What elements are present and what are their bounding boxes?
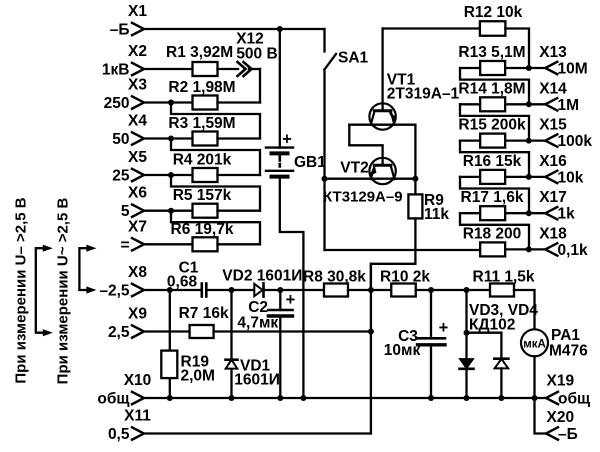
svg-text:2,0M: 2,0M: [181, 368, 215, 385]
node X18: [526, 246, 532, 252]
wire VT1 collector-emitter line: [349, 124, 415, 126]
diode VD1 1601И: [226, 360, 238, 369]
wire R5 right: [218, 210, 261, 212]
wire X2 to R1: [144, 68, 193, 70]
node PA1 / X19 / X20: [532, 395, 538, 401]
wire R15 left: [460, 139, 480, 141]
node X14: [526, 101, 532, 107]
svg-text:–Б: –Б: [558, 426, 578, 443]
svg-text:500 В: 500 В: [236, 46, 277, 63]
wire R11 to PA1: [514, 290, 535, 329]
battery GB1 plate short 1: [272, 151, 288, 155]
svg-text:0,5: 0,5: [108, 426, 130, 443]
wire X8 to C1: [144, 289, 200, 291]
node C2 bottom: [277, 395, 283, 401]
svg-text:SA1: SA1: [338, 50, 369, 67]
svg-text:X2: X2: [128, 43, 147, 60]
resistor R3 1,59M: [193, 132, 218, 146]
node X3 tap: [168, 100, 174, 106]
wire top bus to SA1: [323, 29, 325, 52]
svg-text:X3: X3: [128, 77, 147, 94]
wire VD2 to R8: [264, 289, 325, 291]
resistor R6 19,7k: [193, 237, 218, 251]
node VD1 bottom: [229, 395, 235, 401]
battery GB1 plate short 2: [272, 175, 288, 179]
svg-text:R17 1,6k: R17 1,6k: [461, 189, 524, 206]
wire GB1 plus to top bus: [279, 29, 281, 148]
svg-text:1M: 1M: [558, 97, 580, 114]
capacitor C1 0,68: [201, 284, 204, 297]
resistor R5 157k: [193, 204, 218, 218]
wire X5 to R4: [144, 174, 193, 176]
diode VD3 КД102: [460, 359, 474, 369]
node SA1 / VT2 emitter: [322, 176, 328, 182]
resistor R4 201k: [193, 168, 218, 182]
wire VD1 vertical: [230, 290, 232, 398]
wire R13 left: [460, 67, 480, 69]
node X5 tap: [168, 172, 174, 178]
node VT1 emitter / VT2 collector / R9: [412, 176, 418, 182]
svg-text:X4: X4: [128, 113, 147, 130]
wire C1 to VD2: [208, 289, 254, 291]
resistor R9 11k: [408, 194, 422, 218]
wire C3 bottom lead: [430, 345, 432, 398]
node VD4 bottom: [498, 395, 504, 401]
transistor VT2: [369, 158, 395, 184]
wire C2 top lead: [279, 290, 281, 310]
wire jog R15 to X16: [460, 141, 529, 177]
meter PA1 М476: [521, 329, 548, 356]
svg-text:PA1: PA1: [551, 327, 580, 344]
battery GB1 plate long 2: [266, 170, 293, 172]
wire X6 to R5: [144, 210, 193, 212]
svg-text:При измерении U– >2,5 В: При измерении U– >2,5 В: [13, 197, 30, 383]
svg-text:X17: X17: [539, 189, 567, 206]
wire R12 to X13 corner: [505, 29, 529, 69]
wire R13 to X13: [505, 67, 545, 69]
svg-text:10мк: 10мк: [384, 342, 421, 359]
node X6 tap: [168, 208, 174, 214]
node R19 bottom: [167, 395, 173, 401]
wire VT1 collector jog to VT2 base: [349, 125, 382, 166]
node X4 tap: [168, 136, 174, 142]
svg-text:X19: X19: [547, 373, 575, 390]
wire VT2 emitter-collector line: [325, 178, 416, 180]
svg-text:R18 200: R18 200: [463, 226, 522, 243]
svg-text:R7 16k: R7 16k: [179, 305, 229, 322]
wire R2 right: [218, 101, 261, 103]
diode VD2 1601И: [254, 284, 262, 296]
svg-text:X7: X7: [128, 218, 147, 235]
node GB1 minus on common rail: [300, 395, 306, 401]
svg-text:10M: 10M: [558, 61, 588, 78]
wire R10 to R11: [416, 289, 490, 291]
svg-text:100k: 100k: [558, 133, 593, 150]
wire R8 to R10: [348, 289, 391, 291]
pointer bracket U= to X7/X9: [36, 248, 43, 333]
svg-text:25: 25: [112, 168, 130, 185]
wire SA1 to R18: [325, 249, 481, 251]
svg-text:X5: X5: [128, 149, 147, 166]
svg-text:X16: X16: [539, 153, 567, 170]
svg-text:R11 1,5k: R11 1,5k: [473, 269, 535, 286]
wire R1 right to ladder corner: [249, 68, 260, 70]
node C3 top: [428, 287, 434, 293]
resistor R1 3,92M: [193, 62, 218, 76]
wire VT1 base to R12 bus: [381, 29, 383, 111]
wire R9 bottom jog to main line: [371, 218, 416, 290]
svg-text:X8: X8: [128, 264, 147, 281]
node junction top bus / GB1 plus: [277, 26, 283, 32]
svg-text:R16 15k: R16 15k: [463, 153, 522, 170]
svg-text:X6: X6: [128, 185, 147, 202]
svg-text:R2 1,98M: R2 1,98M: [168, 79, 235, 96]
svg-text:КТ3129А–9: КТ3129А–9: [323, 189, 403, 206]
wire R17 to X17: [505, 212, 545, 214]
svg-text:X14: X14: [539, 80, 567, 97]
svg-text:R10 2k: R10 2k: [380, 269, 430, 286]
svg-text:VT2: VT2: [340, 160, 368, 177]
switch SA1 blade: [325, 54, 337, 70]
svg-text:–2,5: –2,5: [99, 283, 130, 300]
node R7 right junction: [368, 329, 374, 335]
wire R16 to X16: [505, 176, 545, 178]
node X17: [526, 210, 532, 216]
battery GB1 plate long 1: [266, 146, 293, 148]
svg-text:1k: 1k: [558, 206, 576, 223]
node X16: [526, 174, 532, 180]
svg-text:1601И: 1601И: [234, 372, 280, 389]
wire R19 vertical: [169, 290, 171, 398]
capacitor C2 4,7мк: [268, 309, 292, 312]
transistor VT1: [369, 103, 395, 129]
node R19 top: [167, 287, 173, 293]
wire VT1 emitter to R9 node: [414, 125, 416, 195]
wire R14 left: [460, 103, 480, 105]
svg-text:2,5: 2,5: [108, 324, 130, 341]
svg-text:R13 5,1M: R13 5,1M: [458, 44, 525, 61]
svg-text:=: =: [120, 237, 129, 254]
wire R15 to X15: [505, 139, 545, 141]
wire X10 common rail: [144, 397, 546, 399]
wire X11 to riser: [144, 432, 371, 434]
svg-text:R14 1,8M: R14 1,8M: [458, 80, 525, 97]
resistor R13: [480, 61, 505, 75]
resistor R18 200: [480, 242, 505, 256]
resistor R16: [480, 170, 505, 184]
wire jog X5 to R5 right: [171, 175, 260, 211]
svg-text:X18: X18: [539, 225, 567, 242]
svg-text:2Т319А–1: 2Т319А–1: [387, 86, 460, 103]
wire R18 to X18: [505, 248, 545, 250]
wire jog X3 to R3 right: [171, 103, 260, 139]
wire top segment VT1 to R12: [383, 27, 480, 29]
probe X12 chevron arrow: [238, 62, 252, 76]
resistor R8 30,8k: [324, 284, 348, 297]
wire jog R13 to X14: [460, 68, 529, 104]
wire PA1 bottom: [533, 356, 535, 398]
svg-text:X9: X9: [128, 306, 147, 323]
svg-text:КД102: КД102: [469, 317, 515, 334]
wire jog R14 to X15: [460, 104, 529, 140]
wire R17 left: [460, 212, 480, 214]
diode VD4 КД102: [495, 359, 509, 369]
node X15: [526, 138, 532, 144]
wire R16 left: [460, 176, 480, 178]
svg-text:R1 3,92M: R1 3,92M: [166, 44, 233, 61]
svg-text:R4 201k: R4 201k: [173, 152, 232, 169]
resistor R14: [480, 97, 505, 111]
svg-text:–Б: –Б: [110, 22, 130, 39]
svg-text:+: +: [439, 319, 449, 337]
svg-text:М476: М476: [549, 343, 588, 360]
wire X7 to R6: [144, 243, 193, 245]
svg-text:4,7мк: 4,7мк: [237, 314, 278, 331]
resistor R11 1,5k: [490, 284, 514, 297]
wire X9 to R7: [144, 330, 190, 332]
wire VD3 vertical: [465, 290, 467, 398]
svg-text:10k: 10k: [558, 169, 584, 186]
resistor R7 16k: [190, 325, 214, 338]
node C3 bottom: [428, 395, 434, 401]
svg-text:R3 1,59M: R3 1,59M: [168, 115, 235, 132]
wire C2 bottom lead: [279, 316, 281, 398]
resistor R19 2,0M: [161, 351, 177, 379]
wire jog X6 to R6 right: [171, 211, 260, 245]
svg-text:R15 200k: R15 200k: [458, 117, 526, 134]
capacitor C3 10мк: [418, 337, 446, 340]
svg-text:1кВ: 1кВ: [102, 62, 130, 79]
node X13: [526, 65, 532, 71]
wire VD4 bottom lead: [500, 368, 502, 398]
wire GB1 minus to common rail: [280, 177, 304, 398]
svg-text:GB1: GB1: [294, 154, 326, 171]
pointer bracket U~ to X7/X8: [79, 248, 87, 290]
wire R1 to X12 probe: [218, 68, 239, 70]
svg-text:X11: X11: [124, 408, 151, 425]
node R9/R10 junction: [368, 287, 374, 293]
svg-text:+: +: [286, 291, 296, 309]
wire X3 to R2: [144, 101, 193, 103]
svg-text:X1: X1: [128, 3, 147, 20]
svg-text:X15: X15: [539, 117, 567, 134]
resistor R17: [480, 206, 505, 220]
svg-text:общ: общ: [558, 391, 590, 408]
resistor R10 2k: [391, 284, 416, 297]
wire R14 to X14: [505, 103, 545, 105]
wire jog R16 to X17: [460, 177, 529, 213]
svg-text:R12 10k: R12 10k: [464, 4, 523, 21]
svg-text:R5 157k: R5 157k: [173, 187, 232, 204]
wire R4 right: [218, 174, 261, 176]
svg-text:11k: 11k: [424, 206, 449, 223]
svg-text:При измерении U~ >2,5 В: При измерении U~ >2,5 В: [55, 198, 72, 385]
svg-text:C2: C2: [248, 299, 268, 316]
svg-text:VD2 1601И: VD2 1601И: [222, 268, 302, 285]
svg-text:0,1k: 0,1k: [558, 242, 589, 259]
svg-text:250: 250: [104, 95, 130, 112]
wire R6 right: [218, 243, 261, 245]
svg-text:мкА: мкА: [523, 339, 546, 351]
svg-text:общ: общ: [97, 391, 129, 408]
resistor R15: [480, 134, 505, 148]
svg-text:R8 30,8k: R8 30,8k: [303, 269, 366, 286]
node VD3 top: [464, 287, 470, 293]
wire SA1 down: [323, 70, 325, 251]
svg-text:R6 19,7k: R6 19,7k: [171, 221, 234, 238]
svg-text:X13: X13: [539, 44, 567, 61]
node VD3 bottom: [464, 395, 470, 401]
wire C3 top lead: [430, 290, 432, 338]
svg-text:X20: X20: [547, 409, 575, 426]
wire R3 right: [218, 137, 261, 139]
resistor R12 10k: [480, 21, 506, 36]
node VD1 top: [229, 287, 235, 293]
node VD3/VD4 junction: [464, 330, 470, 336]
wire ladder drop R1-R2: [259, 69, 261, 103]
wire top bus from X1: [144, 28, 325, 30]
node C2 top: [277, 287, 283, 293]
resistor R2 1,98M: [193, 96, 218, 110]
wire X20 drop: [535, 398, 547, 434]
wire X4 to R3: [144, 137, 193, 139]
wire R7 to R10 branch: [214, 330, 371, 332]
battery GB1 dash-dot: [278, 157, 281, 167]
wire X11 riser to main line: [370, 264, 372, 434]
wire jog R17 to X18: [460, 213, 529, 249]
wire VD4 top jog: [467, 333, 502, 359]
svg-text:X10: X10: [124, 372, 152, 389]
svg-text:50: 50: [112, 131, 129, 148]
svg-text:+: +: [282, 131, 292, 149]
wire jog X4 to R4 right: [171, 139, 260, 176]
